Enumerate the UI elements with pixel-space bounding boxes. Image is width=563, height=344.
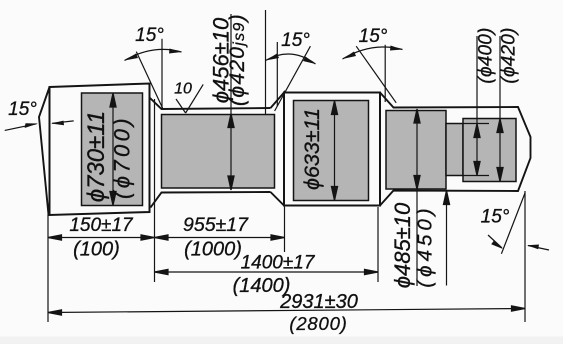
chamfer callout 4: vertical ref bbox=[384, 45, 386, 102]
dimension line ph633 bbox=[334, 102, 336, 200]
machined section (ph700) G1 bbox=[82, 93, 143, 206]
scan artifact strip bottom bbox=[0, 337, 563, 344]
chamfer callout 5 right end: chamfer extension bbox=[501, 193, 525, 254]
chamfer callout 3: chamfer extension bbox=[275, 46, 311, 111]
chamfer callout 2: chamfer extension bbox=[136, 52, 163, 109]
dimension line ph730 bbox=[112, 94, 114, 205]
chamfer callout 1 left: arc arrows bbox=[5, 124, 37, 131]
svg-text:2931±30: 2931±30 bbox=[279, 291, 358, 313]
svg-text:(1000): (1000) bbox=[184, 239, 242, 261]
chamfer callout 5: arc arrows bbox=[488, 235, 502, 248]
svg-text:15°: 15° bbox=[135, 25, 164, 46]
svg-text:(ϕ450): (ϕ450) bbox=[414, 204, 437, 287]
extension line right end bbox=[524, 191, 526, 322]
dimension line ph420 end bbox=[499, 36, 501, 182]
svg-text:15°: 15° bbox=[281, 30, 310, 51]
dimension line ph400 bbox=[476, 36, 478, 176]
dimension line ph485 bbox=[416, 109, 418, 286]
ph400 edge extension lines inside G6 bbox=[463, 123, 489, 125]
dimension line ph450 bbox=[446, 191, 448, 286]
svg-text:955±17: 955±17 bbox=[183, 214, 249, 236]
svg-text:ϕ485±10: ϕ485±10 bbox=[390, 202, 415, 288]
machined neck (ph400) G5 bbox=[446, 124, 463, 176]
svg-text:15°: 15° bbox=[481, 207, 510, 228]
machined neck (ph420js9) G2 bbox=[162, 115, 275, 189]
forging neck section 2 bbox=[150, 98, 271, 110]
svg-text:(ϕ400): (ϕ400) bbox=[476, 27, 497, 83]
allowance mark 10 (check mark) bbox=[176, 99, 186, 113]
svg-text:10: 10 bbox=[174, 81, 192, 98]
dimension row 1400 bbox=[155, 271, 379, 273]
extension line neck/step3 bbox=[284, 207, 286, 252]
dimension row 150 / 955 bbox=[48, 237, 285, 239]
machined section (ph450) G4 bbox=[386, 111, 446, 190]
chamfer callout 3: vertical ref bbox=[276, 42, 278, 106]
extension line step1/neck bbox=[154, 99, 156, 282]
forging right section with end chamfer bbox=[380, 93, 531, 206]
chamfer callout 2: vertical ref bbox=[161, 39, 163, 110]
forging step 1 bbox=[50, 84, 150, 216]
svg-text:150±17: 150±17 bbox=[69, 215, 134, 236]
dimension line ph456 bbox=[230, 14, 232, 190]
svg-text:1400±17: 1400±17 bbox=[241, 253, 316, 274]
machined end (ph420) G6 bbox=[463, 119, 516, 182]
chamfer callout 4: arc bbox=[343, 47, 403, 59]
svg-text:(ϕ420): (ϕ420) bbox=[499, 27, 520, 83]
svg-text:ϕ730±11: ϕ730±11 bbox=[83, 111, 110, 202]
svg-text:15°: 15° bbox=[359, 26, 388, 47]
svg-text:ϕ633±11: ϕ633±11 bbox=[300, 108, 324, 190]
forging left end cap bbox=[39, 87, 50, 215]
extension line left end bbox=[47, 214, 49, 322]
chamfer callout 2: arc bbox=[125, 49, 182, 60]
dimension row 2931 bbox=[48, 309, 525, 313]
extension line step3/right bbox=[377, 207, 379, 282]
chamfer callout 3: arc bbox=[266, 54, 316, 64]
chamfer callout 4: chamfer extension bbox=[356, 46, 396, 103]
svg-text:(ϕ700): (ϕ700) bbox=[110, 115, 135, 199]
svg-text:(100): (100) bbox=[73, 239, 120, 261]
forging step 3 bbox=[271, 93, 285, 206]
machined section (ph633) G3 bbox=[294, 101, 369, 201]
svg-text:15°: 15° bbox=[8, 99, 37, 120]
dimension line ph420js9 bbox=[265, 10, 267, 115]
svg-text:(2800): (2800) bbox=[289, 313, 347, 334]
